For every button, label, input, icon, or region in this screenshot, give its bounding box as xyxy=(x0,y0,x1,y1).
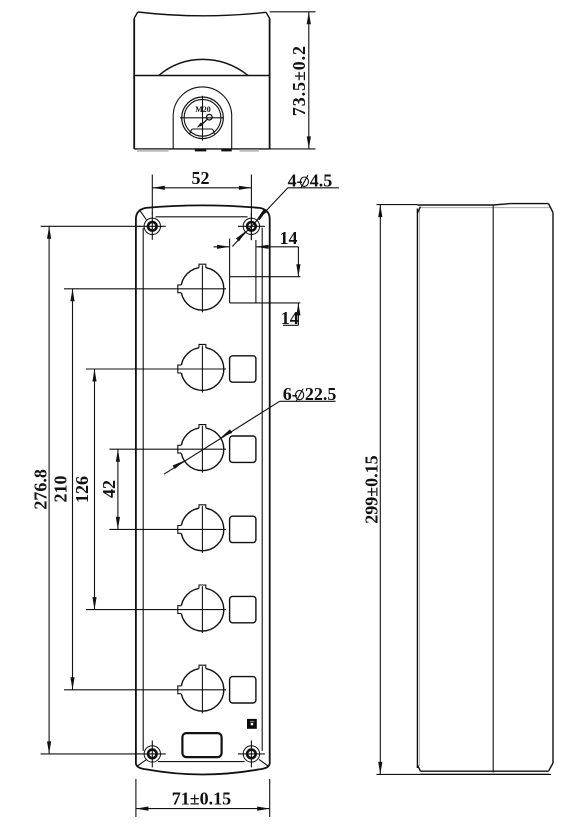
dim 73.5 top extension line xyxy=(270,11,316,13)
front view outer contour xyxy=(136,205,270,774)
button hole 3 circle xyxy=(178,425,224,473)
button hole 5 centerline xyxy=(86,609,226,611)
gland hole outer circle xyxy=(182,97,224,139)
leader 4-ø4.5 arrow outer xyxy=(257,209,267,220)
square hole 1 left edge / extension xyxy=(229,239,231,303)
dim 14 horizontal left arrow xyxy=(214,245,230,249)
dim 42 line xyxy=(117,449,119,529)
bottom cable slot xyxy=(182,733,221,757)
dim 14 vertical lower arrow xyxy=(296,303,300,325)
gland hole crosshair vertical xyxy=(202,96,204,141)
dim 73.5 arrow down xyxy=(307,136,311,149)
dim 126 line xyxy=(94,369,96,610)
leader 6-ø22.5 arrow upper xyxy=(221,429,233,437)
button hole 6 circle xyxy=(178,665,224,713)
dim 276.8 line xyxy=(48,226,50,754)
button hole 1 centerline xyxy=(64,288,226,290)
dim 71 arrow right xyxy=(257,807,270,811)
button hole 5 circle xyxy=(178,585,224,633)
top view dome bump xyxy=(159,59,248,75)
screw hole bottom-left xyxy=(139,740,166,767)
leader 4-ø4.5 arrow inner xyxy=(236,231,246,242)
dim 14 vertical upper arrow xyxy=(296,247,300,277)
dim 299 extension bottom xyxy=(377,773,552,775)
dim 52 arrow right xyxy=(239,186,252,190)
dim 73.5 line xyxy=(308,12,310,149)
dim 42 arrow up xyxy=(116,449,120,462)
dim 126 arrow down xyxy=(92,597,96,610)
square hole 1 bottom edge / extension xyxy=(230,302,301,304)
svg-text:M20: M20 xyxy=(195,105,211,114)
dim 71 extension left xyxy=(135,779,137,817)
square hole 6 xyxy=(230,677,256,703)
square hole 4 xyxy=(230,516,256,542)
front corner mark BR xyxy=(259,759,268,766)
dim 73.5 bottom extension line xyxy=(270,148,316,150)
button hole 4 circle xyxy=(178,505,224,553)
side view outline xyxy=(417,204,553,774)
leader 6-ø22.5 text xyxy=(283,384,337,404)
dim 299 extension top xyxy=(377,204,418,206)
button hole 2 centerline xyxy=(86,368,226,370)
leader 6-ø22.5 arrow lower xyxy=(173,461,185,469)
button hole 3 centerline xyxy=(109,448,226,450)
dim 210 line xyxy=(72,289,74,690)
dim 276.8 arrow down xyxy=(47,741,51,754)
svg-text:73.5±0.2: 73.5±0.2 xyxy=(289,45,309,116)
svg-text:42: 42 xyxy=(99,480,119,498)
button hole 6 centerline xyxy=(64,689,226,691)
leader 6-ø22.5 line xyxy=(164,401,280,474)
svg-text:210: 210 xyxy=(50,476,70,503)
square hole 1 right edge / extension xyxy=(255,240,257,303)
dim 52 arrow left xyxy=(152,186,165,190)
svg-text:276.8: 276.8 xyxy=(31,469,51,510)
top view waist line xyxy=(134,75,269,77)
gland hole crosshair horizontal xyxy=(180,117,224,119)
gland key symbol xyxy=(197,114,212,127)
top view bottom foot marks xyxy=(137,149,259,152)
dim 276.8 arrow up xyxy=(47,226,51,239)
dim 299 line xyxy=(379,205,381,775)
dim 71 extension right xyxy=(269,779,271,817)
leader 6-ø22.5 underline xyxy=(280,400,336,402)
dim 14 horizontal right arrow xyxy=(256,245,299,249)
dim 71 line xyxy=(136,808,270,810)
screw hole top-right xyxy=(238,213,265,240)
dim 126 arrow up xyxy=(92,369,96,382)
dim 42 arrow down xyxy=(116,517,120,530)
front corner mark TL xyxy=(139,210,146,220)
front corner mark TR xyxy=(259,210,266,220)
dim 299 arrow up xyxy=(378,205,382,218)
dim text 14 vertical xyxy=(281,308,299,328)
dim 210 arrow down xyxy=(70,677,74,690)
svg-text:14: 14 xyxy=(280,228,298,248)
dim 52 line xyxy=(152,187,251,189)
dim 299 arrow down xyxy=(378,762,382,775)
screw hole top-left xyxy=(139,213,166,240)
svg-text:71±0.15: 71±0.15 xyxy=(172,789,231,809)
dim 73.5 arrow up xyxy=(307,12,311,24)
dim 52 extension left xyxy=(151,175,153,215)
svg-text:126: 126 xyxy=(72,476,92,503)
front view inner contour xyxy=(143,217,262,762)
button hole 1 circle xyxy=(178,264,224,312)
svg-text:52: 52 xyxy=(192,168,210,188)
square hole 3 xyxy=(230,436,256,462)
square hole 1 top edge / extension xyxy=(230,276,301,278)
square hole 5 xyxy=(230,596,256,622)
button hole 4 centerline xyxy=(109,528,226,530)
side view parting line xyxy=(492,205,494,773)
leader 4-ø4.5 underline xyxy=(288,187,339,189)
top view gland arch xyxy=(173,87,232,149)
dim 52 extension right xyxy=(250,175,252,241)
dim 71 arrow left xyxy=(136,807,149,811)
top view outline xyxy=(134,12,269,149)
gland bottom window xyxy=(190,129,215,135)
leader 4-ø4.5 line xyxy=(232,188,288,247)
screw hole bottom-right xyxy=(238,740,265,767)
front corner mark BL xyxy=(138,759,147,766)
indicator icon xyxy=(247,719,257,729)
gland hole inner circle xyxy=(184,99,221,136)
square hole 2 xyxy=(230,356,256,382)
button hole 2 circle xyxy=(178,344,224,392)
dim 276.8 extension top xyxy=(41,225,141,227)
dim 276.8 extension bottom xyxy=(41,753,141,755)
svg-text:299±0.15: 299±0.15 xyxy=(362,455,382,523)
leader 4-ø4.5 text xyxy=(288,170,333,190)
dim 210 arrow up xyxy=(70,289,74,302)
